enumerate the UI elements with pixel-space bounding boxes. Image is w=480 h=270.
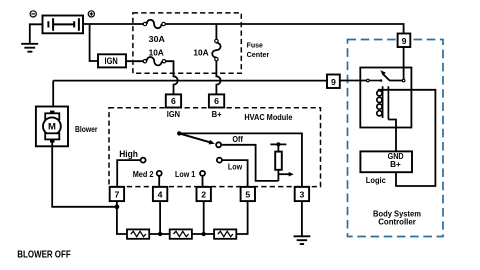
connector 9 (top) [398, 34, 411, 48]
GND B+ logic box [360, 151, 412, 172]
svg-text:5: 5 [245, 190, 250, 200]
wire connector 9 into relay [340, 80, 367, 82]
connector 4 [153, 187, 167, 201]
connector 3 [295, 187, 309, 201]
ground G1 [21, 44, 38, 52]
svg-text:Low 1: Low 1 [175, 169, 195, 179]
svg-text:4: 4 [158, 190, 163, 200]
relay fixed contact (left) [367, 79, 370, 82]
wire R4 to connector 5 [236, 201, 247, 234]
svg-text:7: 7 [114, 190, 119, 200]
svg-text:2: 2 [201, 190, 206, 200]
contact Off [216, 142, 221, 147]
wire connector 9 to relay contact [403, 47, 405, 79]
resistor R4 body [214, 229, 236, 238]
wire coil bottom to GND B+ box [388, 120, 396, 152]
resistor R3 body [170, 229, 192, 238]
svg-text:9: 9 [331, 77, 336, 87]
fuse center dashed box [133, 13, 241, 73]
wire battery negative to ground [30, 24, 43, 43]
wire down to blower motor [52, 81, 54, 111]
wire coil to logic loop [378, 90, 436, 186]
wire Off contact to resistor bottom [221, 145, 278, 181]
svg-text:10A: 10A [193, 48, 208, 58]
resistor R2 body [127, 229, 149, 238]
relay contact (right) [402, 79, 405, 82]
wire connector 3 to ground [301, 201, 303, 235]
resistor R1 body [275, 152, 282, 170]
junction node A (blower/7/resistor pack) [115, 204, 120, 209]
wire blower motor to junction below connector 7 [52, 143, 117, 207]
fuse F1 30A [143, 22, 146, 25]
fuse F3 10A vertical [215, 24, 217, 39]
svg-text:Low: Low [228, 163, 243, 172]
svg-text:BLOWER OFF: BLOWER OFF [17, 249, 70, 260]
svg-text:IGN: IGN [105, 56, 118, 66]
wire battery positive to fuse 30A [83, 23, 143, 25]
main feed wire to blower and relay [53, 80, 327, 82]
contact Low 1 [200, 171, 205, 176]
connector 5 [241, 187, 255, 201]
blower switch arm SW1 [179, 133, 210, 142]
svg-text:Off: Off [232, 135, 243, 144]
wire vertical fuse to connector 6 B+ with hop over main wire [216, 61, 220, 95]
svg-text:Logic: Logic [366, 176, 387, 185]
contact Med 2 [157, 171, 162, 176]
svg-text:Blower: Blower [75, 125, 98, 134]
resistor R1 (HVAC bleed) top bar and junction [270, 144, 286, 151]
connector 6 B+ [209, 94, 224, 107]
wire Low 1 contact to connector 2 [202, 176, 204, 187]
wire switch common to connector 3 [179, 133, 302, 187]
svg-text:Fuse: Fuse [247, 40, 263, 49]
IGN source box [98, 54, 126, 67]
fuse F2 10A horizontal [143, 60, 146, 63]
body system controller dashed box [348, 40, 444, 237]
svg-text:3: 3 [299, 190, 304, 200]
battery positive terminal symbol [88, 11, 94, 17]
relay K1 box [360, 68, 411, 128]
resistor R1 tap arrow [278, 173, 289, 175]
relay coil L1 [383, 86, 389, 119]
svg-text:9: 9 [402, 36, 407, 46]
ground G2 [294, 236, 311, 244]
connector 7 [110, 187, 124, 201]
svg-text:HVAC Module: HVAC Module [244, 113, 292, 122]
wire R2 to R3 with junction to connector 4 [149, 233, 170, 235]
connector 6 IGN [166, 94, 181, 107]
svg-text:10A: 10A [149, 48, 164, 58]
connector 9 (middle) [327, 75, 340, 89]
HVAC module dashed box [109, 108, 321, 187]
battery B1 [43, 16, 84, 34]
svg-text:High: High [119, 149, 138, 159]
svg-text:Med 2: Med 2 [133, 169, 154, 179]
wire Med 2 contact to connector 4 [158, 176, 160, 187]
svg-text:IGN: IGN [167, 109, 180, 119]
wire battery positive tap down to IGN [90, 24, 98, 61]
svg-text:B+: B+ [212, 109, 222, 119]
connector 2 [197, 187, 211, 201]
svg-text:B+: B+ [390, 160, 401, 169]
wire High contact to connector 7 [117, 160, 141, 187]
battery negative terminal symbol [30, 11, 36, 17]
wire R3 to R4 with junction to connector 2 [192, 233, 214, 235]
svg-text:M: M [48, 122, 56, 133]
blower motor M1 [36, 107, 68, 147]
contact High [141, 158, 146, 163]
svg-text:30A: 30A [149, 34, 165, 44]
svg-text:Center: Center [247, 50, 270, 59]
wire IGN to fuse 10A [126, 60, 143, 62]
wire fuse 30A to connector 9 top [165, 24, 403, 34]
wire connector 7 to resistor pack junction [117, 201, 127, 234]
blower switch pivot node [177, 131, 181, 135]
svg-text:6: 6 [171, 96, 176, 106]
svg-text:6: 6 [214, 96, 219, 106]
svg-text:Controller: Controller [378, 217, 416, 227]
wire fuse 10A to connector 6 IGN with hop over main wire [166, 61, 178, 94]
contact Low [217, 158, 222, 163]
wire Low contact to connector 5 [222, 160, 248, 187]
relay armature arm [383, 74, 402, 80]
